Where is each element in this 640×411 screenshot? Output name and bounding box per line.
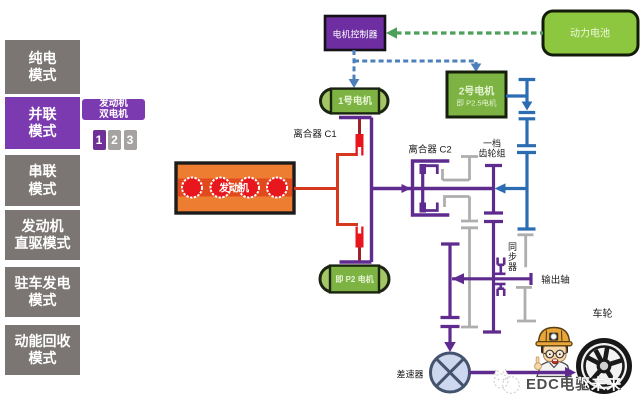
engine E1: 发动机 block (176, 163, 294, 213)
svg-text:1号电机: 1号电机 (338, 95, 372, 107)
shaft: differential input (purple) with gear mesh and arrow (441, 244, 460, 352)
shaft: first gear shaft (purple) with gear mesh (483, 166, 503, 333)
gray counter shaft lower run (461, 228, 478, 327)
svg-text:电机控制器: 电机控制器 (332, 29, 377, 40)
wire: controller to motor 1 (blue dashed arrow) (349, 50, 360, 88)
svg-text:离合器 C1: 离合器 C1 (293, 128, 336, 140)
clutch C2 output drum (gray) upper (443, 157, 479, 181)
shaft: motor1/P2 shaft (purple) (339, 118, 372, 263)
wheel W1 (576, 338, 632, 394)
wire: C2 output to first gear shaft (purple) (424, 187, 494, 190)
watermark: EDC 电驱未来 (526, 375, 622, 393)
clutch C1 plate upper (356, 134, 364, 156)
svg-text:2号电机: 2号电机 (459, 85, 495, 98)
differential D1 (431, 353, 470, 392)
gray idler below output shaft (516, 287, 536, 321)
wire: motor2 shaft to first gear shaft (blue, arrow left) (495, 183, 528, 193)
motor M1: 1号电机 capsule (321, 89, 389, 114)
clutch C2 input drum (purple) (413, 161, 450, 215)
mode button: engine direct drive mode (5, 210, 80, 260)
svg-text:齿轮组: 齿轮组 (478, 148, 505, 159)
mode button: series mode (5, 155, 80, 206)
wire: controller branch to motor 2 (blue dashed arrow) (354, 61, 481, 72)
shaft: motor2 reduction (blue) (506, 80, 536, 230)
mode button: energy recovery mode (5, 325, 80, 375)
step chip 2 (108, 130, 121, 150)
svg-text:同: 同 (508, 242, 517, 252)
tag chip: engine + dual motor (82, 99, 145, 120)
svg-text:差速器: 差速器 (396, 369, 423, 380)
mascot: engineer figure (535, 328, 572, 377)
clutch C1 plate lower (356, 227, 364, 248)
mode button: parking generation mode (5, 267, 80, 317)
svg-text:一档: 一档 (483, 138, 501, 149)
svg-text:器: 器 (508, 262, 517, 272)
svg-text:即 P2.5电机: 即 P2.5电机 (456, 98, 497, 108)
synchronizer S1 (494, 258, 506, 297)
wire: HV dc bus battery to controller (green dashed arrow) (386, 27, 543, 39)
gear mesh on gray counter shaft (461, 221, 478, 228)
wire: engine crankshaft to clutch C1 (red) (294, 187, 338, 190)
watermark: cat doodle logo (493, 370, 520, 394)
mode button: pure EV mode (5, 40, 80, 94)
motor M3: P2 电机 capsule (320, 266, 389, 293)
mode button: parallel mode (selected) (5, 97, 80, 149)
svg-text:车轮: 车轮 (593, 307, 613, 320)
svg-text:离合器 C2: 离合器 C2 (408, 144, 451, 156)
wire: motor shaft to clutch C2 input (purple arrow) (372, 184, 425, 193)
motor M2: 2号电机 box (447, 72, 506, 117)
label: synchronizer (vertical) (508, 242, 517, 272)
clutch C2 output drum (gray) lower (445, 197, 470, 220)
battery: power battery box (543, 11, 638, 55)
inverter U1: motor controller box (325, 16, 385, 50)
step chip 1 (selected) (93, 130, 106, 150)
label: first gear set (478, 138, 505, 159)
clutch C1: engine-side fork (red) (338, 155, 359, 225)
wire: output shaft line (purple, arrow left) (452, 273, 531, 285)
svg-text:步: 步 (508, 252, 517, 262)
wire: differential to wheel (purple arrow) (470, 367, 577, 378)
gray idler below blue shaft (518, 235, 534, 267)
clutch C1 plate stems (dark red) (358, 118, 361, 263)
step chip 3 (124, 130, 137, 150)
svg-text:发动机: 发动机 (218, 182, 249, 195)
svg-text:即 P2 电机: 即 P2 电机 (335, 274, 373, 284)
svg-text:输出轴: 输出轴 (541, 274, 570, 286)
svg-text:动力电池: 动力电池 (570, 27, 610, 40)
